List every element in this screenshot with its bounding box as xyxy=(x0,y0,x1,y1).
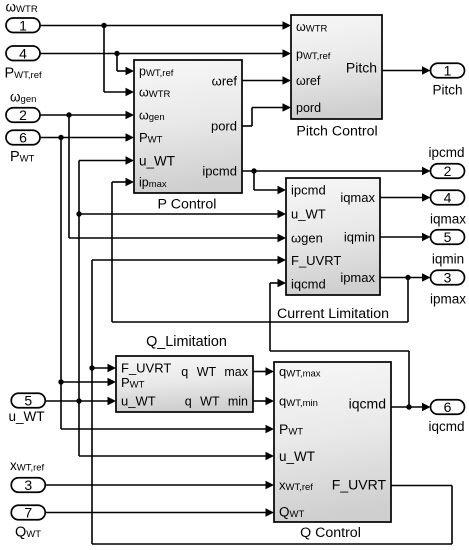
svg-text:ipmax: ipmax xyxy=(430,292,466,307)
svg-text:iqcmd: iqcmd xyxy=(291,277,326,292)
svg-text:ipcmd: ipcmd xyxy=(291,183,326,198)
svg-text:Q Control: Q Control xyxy=(300,525,361,541)
svg-text:4: 4 xyxy=(444,190,452,206)
svg-text:Pitch: Pitch xyxy=(432,83,462,98)
svg-text:Pitch Control: Pitch Control xyxy=(296,124,377,140)
svg-text:iqmin: iqmin xyxy=(344,230,375,245)
svg-text:4: 4 xyxy=(19,45,27,61)
svg-text:iqcmd: iqcmd xyxy=(349,396,386,412)
svg-text:q WT max: q WT max xyxy=(181,365,248,379)
svg-text:u_WT: u_WT xyxy=(9,409,45,424)
svg-text:1: 1 xyxy=(19,17,27,33)
svg-text:u_WT: u_WT xyxy=(139,154,175,169)
svg-text:Current Limitation: Current Limitation xyxy=(277,306,389,322)
svg-text:u_WT: u_WT xyxy=(121,394,156,409)
svg-text:7: 7 xyxy=(24,505,32,521)
svg-text:Pitch: Pitch xyxy=(346,60,377,76)
svg-text:2: 2 xyxy=(19,107,27,123)
svg-text:1: 1 xyxy=(444,63,452,79)
svg-text:u_WT: u_WT xyxy=(279,449,315,464)
svg-text:2: 2 xyxy=(444,163,452,179)
svg-text:ipcmd: ipcmd xyxy=(202,164,237,179)
svg-text:5: 5 xyxy=(444,229,452,245)
svg-text:5: 5 xyxy=(24,393,32,409)
svg-text:6: 6 xyxy=(19,130,27,146)
svg-text:F_UVRT: F_UVRT xyxy=(332,477,387,493)
svg-text:iqmax: iqmax xyxy=(430,212,466,227)
svg-text:3: 3 xyxy=(24,477,32,493)
svg-text:pord: pord xyxy=(296,101,321,115)
svg-text:iqcmd: iqcmd xyxy=(428,419,464,434)
svg-text:3: 3 xyxy=(444,270,452,286)
svg-text:pord: pord xyxy=(211,119,237,134)
svg-text:6: 6 xyxy=(444,399,452,415)
svg-text:q WT min: q WT min xyxy=(185,395,248,409)
svg-text:ipcmd: ipcmd xyxy=(428,145,464,160)
svg-text:P Control: P Control xyxy=(158,197,217,213)
svg-text:u_WT: u_WT xyxy=(291,207,326,222)
svg-text:iqmin: iqmin xyxy=(432,252,464,267)
svg-text:ωref: ωref xyxy=(212,74,238,89)
svg-text:ipmax: ipmax xyxy=(340,270,375,285)
svg-text:ωgen: ωgen xyxy=(291,231,323,246)
svg-text:iqmax: iqmax xyxy=(340,190,375,205)
svg-text:F_UVRT: F_UVRT xyxy=(121,361,171,376)
svg-text:F_UVRT: F_UVRT xyxy=(291,253,341,268)
svg-text:Q_Limitation: Q_Limitation xyxy=(146,334,227,350)
svg-text:ωref: ωref xyxy=(296,74,321,88)
